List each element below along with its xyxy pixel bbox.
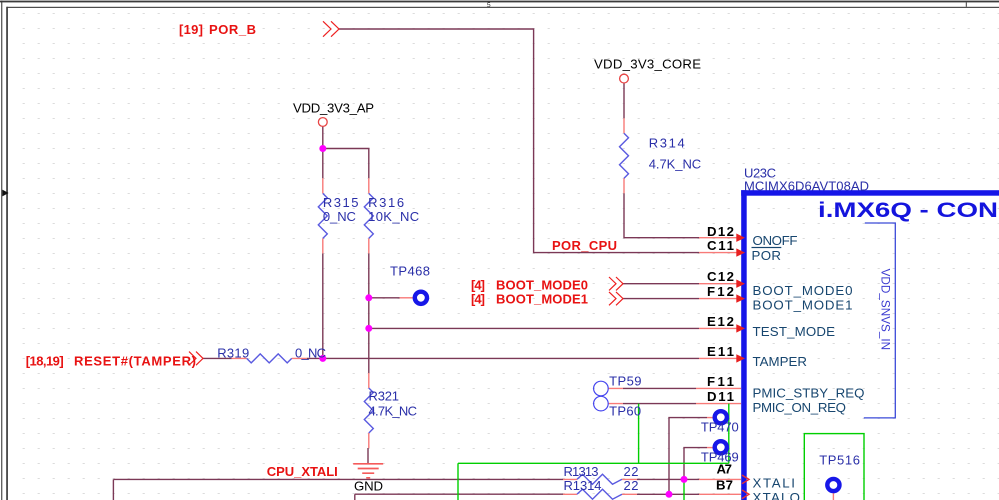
svg-text:R315: R315 xyxy=(323,195,359,210)
svg-text:BOOT_MODE1: BOOT_MODE1 xyxy=(753,298,853,313)
svg-text:5: 5 xyxy=(487,2,491,9)
svg-text:CPU_XTALI: CPU_XTALI xyxy=(267,464,338,479)
svg-text:10K_NC: 10K_NC xyxy=(368,209,419,224)
svg-text:22: 22 xyxy=(624,478,639,493)
svg-text:VDD_SNVS_IN: VDD_SNVS_IN xyxy=(879,269,891,351)
svg-text:XTALI: XTALI xyxy=(753,476,796,491)
svg-text:MCIMX6D6AVT08AD: MCIMX6D6AVT08AD xyxy=(744,178,869,193)
svg-text:D12: D12 xyxy=(707,224,734,239)
svg-text:POR_B: POR_B xyxy=(209,22,256,37)
svg-text:BOOT_MODE1: BOOT_MODE1 xyxy=(496,291,588,306)
svg-text:[19]: [19] xyxy=(179,22,203,37)
svg-text:TP469: TP469 xyxy=(701,450,739,465)
svg-text:C11: C11 xyxy=(707,238,734,253)
svg-text:TAMPER: TAMPER xyxy=(753,354,808,369)
svg-text:D11: D11 xyxy=(707,389,734,404)
svg-text:TP470: TP470 xyxy=(701,419,739,434)
svg-text:POR: POR xyxy=(752,248,782,263)
svg-text:[18,19]: [18,19] xyxy=(26,353,64,368)
svg-text:TP468: TP468 xyxy=(390,264,430,279)
svg-text:[4]: [4] xyxy=(471,277,485,292)
svg-text:E12: E12 xyxy=(707,314,734,329)
svg-text:0_NC: 0_NC xyxy=(323,209,356,224)
svg-text:POR_CPU: POR_CPU xyxy=(552,238,617,253)
svg-text:TP60: TP60 xyxy=(609,404,641,419)
svg-text:TEST_MODE: TEST_MODE xyxy=(753,324,836,339)
svg-text:R319: R319 xyxy=(217,345,249,360)
svg-text:0_NC: 0_NC xyxy=(295,346,326,361)
svg-text:BOOT_MODE0: BOOT_MODE0 xyxy=(753,283,853,298)
svg-text:PMIC_ON_REQ: PMIC_ON_REQ xyxy=(753,400,847,415)
svg-text:F12: F12 xyxy=(707,284,734,299)
svg-text:GND: GND xyxy=(354,479,383,494)
svg-text:TP59: TP59 xyxy=(609,373,641,388)
svg-text:C12: C12 xyxy=(707,269,734,284)
svg-text:R1313: R1313 xyxy=(564,464,599,479)
svg-text:4.7K_NC: 4.7K_NC xyxy=(649,157,702,172)
svg-text:R1314: R1314 xyxy=(564,478,602,493)
svg-text:ONOFF: ONOFF xyxy=(753,233,798,248)
svg-text:i.MX6Q - CONN: i.MX6Q - CONN xyxy=(818,198,999,222)
svg-text:4.7K_NC: 4.7K_NC xyxy=(369,404,418,419)
svg-text:22: 22 xyxy=(624,464,639,479)
svg-text:R316: R316 xyxy=(368,195,404,210)
svg-text:TP516: TP516 xyxy=(819,452,860,467)
svg-text:BOOT_MODE0: BOOT_MODE0 xyxy=(496,277,588,292)
svg-text:XTALO: XTALO xyxy=(753,490,801,500)
svg-text:R314: R314 xyxy=(649,136,685,151)
svg-text:E11: E11 xyxy=(707,344,734,359)
svg-text:B7: B7 xyxy=(716,477,733,492)
svg-text:VDD_3V3_AP: VDD_3V3_AP xyxy=(293,101,374,116)
svg-text:F11: F11 xyxy=(707,374,734,389)
svg-text:RESET#(TAMPER): RESET#(TAMPER) xyxy=(74,353,196,368)
svg-text:VDD_3V3_CORE: VDD_3V3_CORE xyxy=(594,57,701,72)
svg-text:PMIC_STBY_REQ: PMIC_STBY_REQ xyxy=(753,386,865,401)
svg-text:R321: R321 xyxy=(369,389,400,404)
svg-text:[4]: [4] xyxy=(471,291,485,306)
